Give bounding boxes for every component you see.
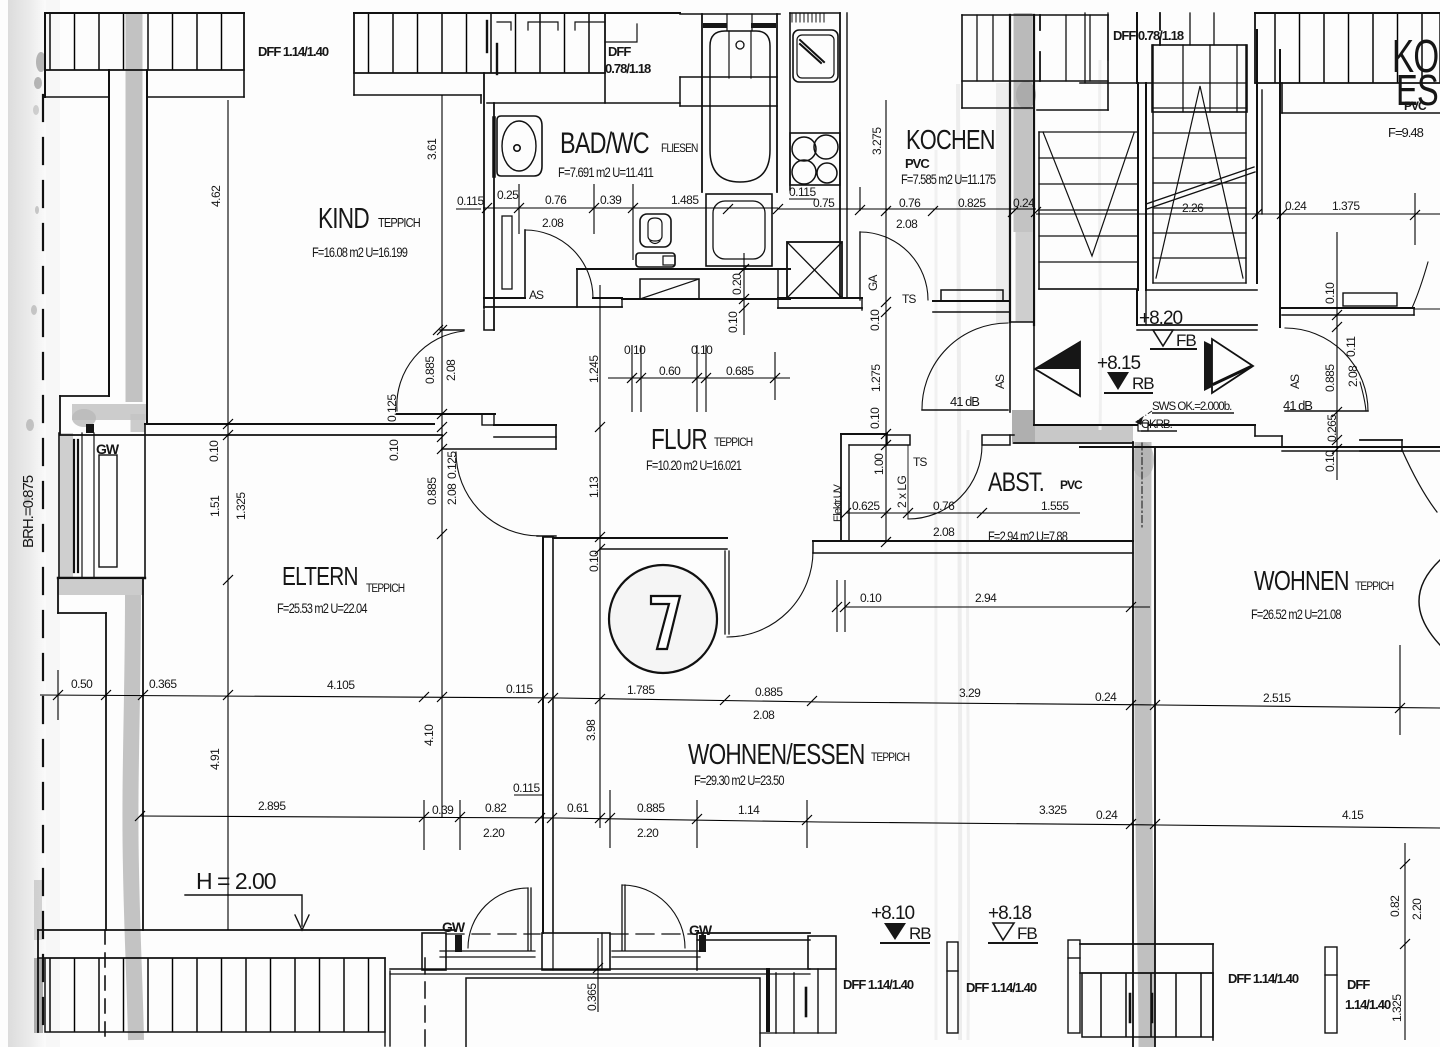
svg-text:TEPPICH: TEPPICH xyxy=(714,436,753,449)
DFF pier small 3 xyxy=(1325,947,1337,1033)
svg-text:ELTERN: ELTERN xyxy=(282,562,358,591)
svg-text:0.78/1.18: 0.78/1.18 xyxy=(605,61,651,76)
wall below kitchen xyxy=(778,297,862,299)
0.115 underlines xyxy=(456,199,816,795)
party wall south verticals xyxy=(1132,442,1134,1047)
svg-text:0.24: 0.24 xyxy=(1013,196,1035,210)
svg-text:0.885: 0.885 xyxy=(425,477,439,505)
svg-text:2.08: 2.08 xyxy=(542,216,564,230)
2.94 chain y607 xyxy=(845,606,1150,608)
right balcony band xyxy=(1080,943,1213,945)
neighbour balcony frame right xyxy=(766,970,770,1030)
bathtub xyxy=(710,31,770,182)
svg-text:WOHNEN: WOHNEN xyxy=(1254,565,1349,596)
svg-text:BRH.=0.875: BRH.=0.875 xyxy=(20,475,37,548)
svg-text:AS: AS xyxy=(1288,374,1302,389)
svg-text:+8.10: +8.10 xyxy=(871,903,915,924)
svg-text:3.275: 3.275 xyxy=(870,127,884,155)
svg-text:DFF 0.78/1.18: DFF 0.78/1.18 xyxy=(1113,28,1184,43)
balcony interior edge xyxy=(390,968,810,970)
svg-text:0.625: 0.625 xyxy=(852,499,880,513)
dim guides top xyxy=(519,184,1415,260)
svg-text:1.14/1.40: 1.14/1.40 xyxy=(1345,997,1391,1012)
svg-text:0.20: 0.20 xyxy=(730,273,744,295)
dim vertical x442 (3.61/0.885/2.08/4.10) xyxy=(441,95,443,818)
svg-text:0.10: 0.10 xyxy=(1323,282,1337,304)
svg-text:0.885: 0.885 xyxy=(755,685,783,699)
svg-text:F=26.52 m2 U=21.08: F=26.52 m2 U=21.08 xyxy=(1251,607,1342,622)
kitchen counter column xyxy=(789,13,791,190)
svg-text:0.115: 0.115 xyxy=(506,682,533,696)
circle 7 xyxy=(609,565,717,673)
svg-text:F=29.30 m2 U=23.50: F=29.30 m2 U=23.50 xyxy=(694,773,785,788)
svg-text:Elektr.UV: Elektr.UV xyxy=(832,483,844,522)
svg-text:0.885: 0.885 xyxy=(637,801,665,815)
highlighter stripe through KIND west wall xyxy=(126,13,143,402)
highlighter stripe ELTERN west wall to balcony xyxy=(130,595,136,1040)
top-left roof hatch band xyxy=(45,13,244,70)
svg-text:1.00: 1.00 xyxy=(872,453,886,475)
svg-text:0.10: 0.10 xyxy=(587,550,601,572)
svg-text:1.13: 1.13 xyxy=(587,476,601,498)
svg-text:0.125: 0.125 xyxy=(445,451,459,479)
svg-text:PVC: PVC xyxy=(1060,478,1083,492)
svg-text:2.895: 2.895 xyxy=(258,799,286,813)
svg-text:0.885: 0.885 xyxy=(423,356,437,384)
KOCHEN door xyxy=(859,232,861,300)
highlighter ELTERN window + sill xyxy=(60,433,73,579)
svg-text:4.10: 4.10 xyxy=(422,724,436,746)
highlighter chunk at ABST corner xyxy=(1012,410,1035,444)
svg-text:FB: FB xyxy=(1017,924,1037,943)
svg-text:AS: AS xyxy=(993,374,1007,389)
BAD south wall xyxy=(577,268,790,270)
svg-text:OKRB.: OKRB. xyxy=(1141,419,1173,431)
BAD door xyxy=(524,230,526,298)
svg-text:41 dB: 41 dB xyxy=(1283,398,1312,413)
svg-text:0.10: 0.10 xyxy=(624,343,646,357)
svg-text:0.75: 0.75 xyxy=(813,196,835,210)
svg-text:2 x LG: 2 x LG xyxy=(895,475,909,508)
svg-text:GW: GW xyxy=(689,922,713,938)
svg-text:TS: TS xyxy=(913,455,927,469)
svg-text:3.98: 3.98 xyxy=(584,719,598,741)
lower chain y816-828 xyxy=(140,816,1440,828)
svg-text:2.08: 2.08 xyxy=(896,217,918,231)
svg-text:FB: FB xyxy=(1176,331,1196,350)
svg-text:BAD/WC: BAD/WC xyxy=(560,126,649,159)
dim vertical x600 (1.245/1.13/3.98) xyxy=(599,285,601,828)
dim vertical x744 (0.20/0.10) xyxy=(743,253,745,335)
svg-text:0.825: 0.825 xyxy=(958,196,986,210)
svg-text:0.82: 0.82 xyxy=(1388,895,1402,917)
svg-text:0.24: 0.24 xyxy=(1096,808,1118,822)
dim vertical x886 (3.275/0.10/1.275/1.00) xyxy=(885,100,887,542)
big left arrow triangle near ABST xyxy=(1035,342,1080,396)
svg-text:F=7.691 m2 U=11.411: F=7.691 m2 U=11.411 xyxy=(558,165,654,180)
svg-text:0.365: 0.365 xyxy=(585,983,599,1011)
scan smudges left margin xyxy=(36,52,46,72)
stairwell right flight treads xyxy=(1153,83,1246,283)
svg-text:TEPPICH: TEPPICH xyxy=(1355,580,1394,593)
svg-text:2.08: 2.08 xyxy=(753,708,775,722)
svg-text:0.265: 0.265 xyxy=(1325,414,1339,442)
right corridor wall + radiator xyxy=(1343,293,1397,306)
svg-text:2.26: 2.26 xyxy=(1182,201,1204,215)
svg-text:F=9.48: F=9.48 xyxy=(1388,125,1424,140)
svg-text:0.885: 0.885 xyxy=(1323,364,1337,392)
AS shelf in BAD xyxy=(502,216,512,289)
handrail double diagonal xyxy=(1146,167,1255,209)
shaft box with diagonal in wall xyxy=(640,279,699,299)
tick marks xyxy=(482,203,1420,220)
svg-text:RB: RB xyxy=(909,924,931,943)
svg-text:0.60: 0.60 xyxy=(659,364,681,378)
svg-text:0.10: 0.10 xyxy=(860,591,882,605)
corridor-ELTERN wall bands xyxy=(397,413,495,415)
scan fold creases xyxy=(958,84,961,1040)
scan left margin band xyxy=(8,0,46,1047)
svg-text:0.76: 0.76 xyxy=(933,499,955,513)
svg-text:0.76: 0.76 xyxy=(899,196,921,210)
highlighter party wall south xyxy=(1143,442,1147,1047)
svg-text:+8.20: +8.20 xyxy=(1139,308,1183,329)
svg-text:+8.15: +8.15 xyxy=(1097,353,1141,374)
svg-text:DFF: DFF xyxy=(1347,977,1370,992)
svg-text:3.325: 3.325 xyxy=(1039,803,1067,817)
washbasin BAD xyxy=(497,116,542,176)
svg-text:1.325: 1.325 xyxy=(1390,994,1404,1022)
svg-text:2.515: 2.515 xyxy=(1263,691,1291,705)
right balcony door xyxy=(699,935,706,952)
stair mid wall xyxy=(1137,83,1139,290)
balcony door piers xyxy=(422,933,446,970)
svg-text:0.115: 0.115 xyxy=(513,781,540,795)
svg-text:2.20: 2.20 xyxy=(637,826,659,840)
svg-text:1.375: 1.375 xyxy=(1332,199,1360,213)
ABST walls xyxy=(840,434,842,541)
stairwell east wall xyxy=(1256,30,1258,283)
svg-text:DFF 1.14/1.40: DFF 1.14/1.40 xyxy=(258,44,329,59)
svg-text:2.08: 2.08 xyxy=(444,359,458,381)
dim vertical x598 (0.365) xyxy=(597,938,599,1012)
svg-text:DFF 1.14/1.40: DFF 1.14/1.40 xyxy=(1228,971,1299,986)
svg-text:0.76: 0.76 xyxy=(545,193,567,207)
KIND door arc xyxy=(397,331,464,411)
stairwell left flight treads xyxy=(1039,132,1137,289)
svg-text:F=10.20 m2 U=16.021: F=10.20 m2 U=16.021 xyxy=(646,458,742,473)
svg-text:2.08: 2.08 xyxy=(445,483,459,505)
svg-text:F=7.585 m2 U=11.175: F=7.585 m2 U=11.175 xyxy=(901,172,996,187)
svg-text:1.275: 1.275 xyxy=(869,364,883,392)
svg-text:41 dB: 41 dB xyxy=(950,394,979,409)
ELTERN/WOHNEN divider wall xyxy=(542,537,544,933)
svg-text:0.365: 0.365 xyxy=(149,677,177,691)
stair window top xyxy=(1152,45,1247,112)
left balcony door xyxy=(455,935,462,952)
svg-text:ABST.: ABST. xyxy=(988,468,1044,498)
door FLUR to ELTERN xyxy=(456,452,540,536)
dim vertical x1405 bottom right (0.82/2.20/1.325) xyxy=(1404,843,1406,1040)
svg-text:KOCHEN: KOCHEN xyxy=(906,124,995,155)
svg-text:FLIESEN: FLIESEN xyxy=(661,142,698,155)
svg-text:0.61: 0.61 xyxy=(567,801,589,815)
svg-text:0.39: 0.39 xyxy=(432,803,454,817)
FLUR south-east wall band to stairwell xyxy=(1034,424,1255,426)
right rooms door arc bottom xyxy=(1360,439,1402,441)
svg-text:DFF 1.14/1.40: DFF 1.14/1.40 xyxy=(843,977,914,992)
svg-text:TEPPICH: TEPPICH xyxy=(871,751,910,764)
svg-text:TEPPICH: TEPPICH xyxy=(366,582,405,595)
svg-text:0.50: 0.50 xyxy=(71,677,93,691)
dashed property line left xyxy=(42,95,44,1040)
svg-text:0.115: 0.115 xyxy=(457,194,484,208)
svg-text:2.08: 2.08 xyxy=(933,525,955,539)
dim vertical x1337 (0.11/0.885/0.265) xyxy=(1336,232,1338,480)
svg-text:0.10: 0.10 xyxy=(868,309,882,331)
DFF pier small 2 xyxy=(1068,940,1080,1033)
svg-text:0.10: 0.10 xyxy=(726,311,740,333)
ABST chain y513 xyxy=(846,512,1080,514)
svg-text:4.62: 4.62 xyxy=(209,185,223,207)
svg-text:2.20: 2.20 xyxy=(1410,898,1424,920)
FLUR south wall east part xyxy=(813,540,1133,542)
ABST door lower xyxy=(908,445,982,519)
svg-text:WOHNEN/ESSEN: WOHNEN/ESSEN xyxy=(688,737,865,770)
svg-text:0.11: 0.11 xyxy=(1344,336,1358,357)
door FLUR to WOHNEN/ESSEN xyxy=(725,551,729,634)
shaft X-box xyxy=(787,242,842,298)
svg-text:RB: RB xyxy=(1132,374,1154,393)
svg-text:1.785: 1.785 xyxy=(627,683,655,697)
svg-text:4.91: 4.91 xyxy=(208,748,222,770)
FLUR south wall west part xyxy=(553,537,727,539)
svg-text:+8.18: +8.18 xyxy=(988,903,1032,924)
landing direction arrow triangle xyxy=(1212,339,1253,393)
svg-text:GA: GA xyxy=(866,275,880,291)
svg-text:3.29: 3.29 xyxy=(959,686,981,700)
svg-text:GW: GW xyxy=(442,919,466,935)
svg-text:0.10: 0.10 xyxy=(1323,450,1337,472)
svg-text:TS: TS xyxy=(902,292,916,306)
balcony south-west band xyxy=(38,929,456,931)
svg-text:H = 2.00: H = 2.00 xyxy=(196,868,276,894)
FLUR small chain y378 xyxy=(608,377,790,379)
svg-text:GW: GW xyxy=(96,441,120,457)
top-middle hatch band (KIND/BAD windows) xyxy=(354,13,605,73)
ELTERN window (GW) xyxy=(58,433,60,578)
svg-text:0.10: 0.10 xyxy=(868,407,882,429)
svg-text:TEPPICH: TEPPICH xyxy=(378,215,420,230)
dim chain top (BAD/WC - KOCHEN - stairs) xyxy=(483,208,1440,214)
svg-text:1.555: 1.555 xyxy=(1041,499,1069,513)
highlighter party wall top (KOCHEN/stairs) xyxy=(1014,13,1033,110)
svg-text:AS: AS xyxy=(529,288,544,302)
shower tray xyxy=(706,194,772,266)
party wall top xyxy=(1009,15,1011,322)
svg-text:1.485: 1.485 xyxy=(671,193,699,207)
svg-text:0.10: 0.10 xyxy=(691,343,713,357)
svg-text:KIND: KIND xyxy=(318,201,369,234)
svg-text:PVC: PVC xyxy=(1404,99,1427,113)
svg-text:0.25: 0.25 xyxy=(497,188,519,202)
ELTERN west wall lower xyxy=(57,578,59,613)
svg-text:0.24: 0.24 xyxy=(1095,690,1117,704)
svg-text:0.685: 0.685 xyxy=(726,364,754,378)
svg-text:2.94: 2.94 xyxy=(975,591,997,605)
top-right hatch band xyxy=(1255,13,1440,83)
dim vertical x228 (4.62/0.10/1.51/4.91) xyxy=(227,100,229,930)
dash-dot axis in party wall xyxy=(1141,443,1143,530)
svg-text:3.61: 3.61 xyxy=(425,138,439,160)
landing south wall xyxy=(1137,324,1257,326)
WOHNEN room (right) big arc fragment xyxy=(1419,560,1440,645)
DFF pier small 1 xyxy=(947,942,958,1033)
svg-text:2.08: 2.08 xyxy=(1346,365,1360,387)
svg-text:0.39: 0.39 xyxy=(600,193,622,207)
svg-text:4.105: 4.105 xyxy=(327,678,355,692)
svg-text:0.10: 0.10 xyxy=(207,440,221,462)
svg-text:0.82: 0.82 xyxy=(485,801,507,815)
H=2.00 arrow xyxy=(185,895,302,926)
svg-text:SWS OK.=2.000b.: SWS OK.=2.000b. xyxy=(1152,401,1232,413)
svg-text:PVC: PVC xyxy=(905,156,930,171)
stair lambda zigzag right xyxy=(1156,86,1243,278)
stove xyxy=(790,133,840,185)
svg-text:2.20: 2.20 xyxy=(483,826,505,840)
svg-text:4.15: 4.15 xyxy=(1342,808,1364,822)
right apartment door arc top xyxy=(1412,262,1428,308)
svg-text:F=16.08 m2 U=16.199: F=16.08 m2 U=16.199 xyxy=(312,245,408,260)
svg-text:F=25.53 m2 U=22.04: F=25.53 m2 U=22.04 xyxy=(277,601,368,616)
svg-text:DFF: DFF xyxy=(608,44,631,59)
KIND west wall verticals xyxy=(108,70,110,396)
svg-text:1.14: 1.14 xyxy=(738,803,760,817)
kitchen sink xyxy=(793,30,838,82)
svg-text:1.51: 1.51 xyxy=(208,495,222,517)
svg-text:1.245: 1.245 xyxy=(587,355,601,383)
svg-text:DFF 1.14/1.40: DFF 1.14/1.40 xyxy=(966,980,1037,995)
BAD north wall band piece xyxy=(680,76,777,78)
svg-text:0.24: 0.24 xyxy=(1285,199,1307,213)
svg-text:0.10: 0.10 xyxy=(387,439,401,461)
KIND east / BAD west wall xyxy=(483,73,485,308)
arc tail near radiator right xyxy=(1360,382,1366,411)
svg-text:F=2.94 m2 U=7.88: F=2.94 m2 U=7.88 xyxy=(988,529,1068,544)
main mid chain y695-708 xyxy=(40,695,1440,708)
svg-text:FLUR: FLUR xyxy=(651,422,707,455)
svg-text:0.125: 0.125 xyxy=(385,394,399,422)
bathtub column top frame xyxy=(680,13,780,15)
WC xyxy=(640,214,671,247)
right stair-side door xyxy=(1285,328,1368,411)
stair V zigzag left xyxy=(1043,132,1134,256)
svg-text:1.325: 1.325 xyxy=(234,492,248,520)
ABST door upper xyxy=(922,323,1008,409)
window pane marks above BAD xyxy=(497,22,511,30)
